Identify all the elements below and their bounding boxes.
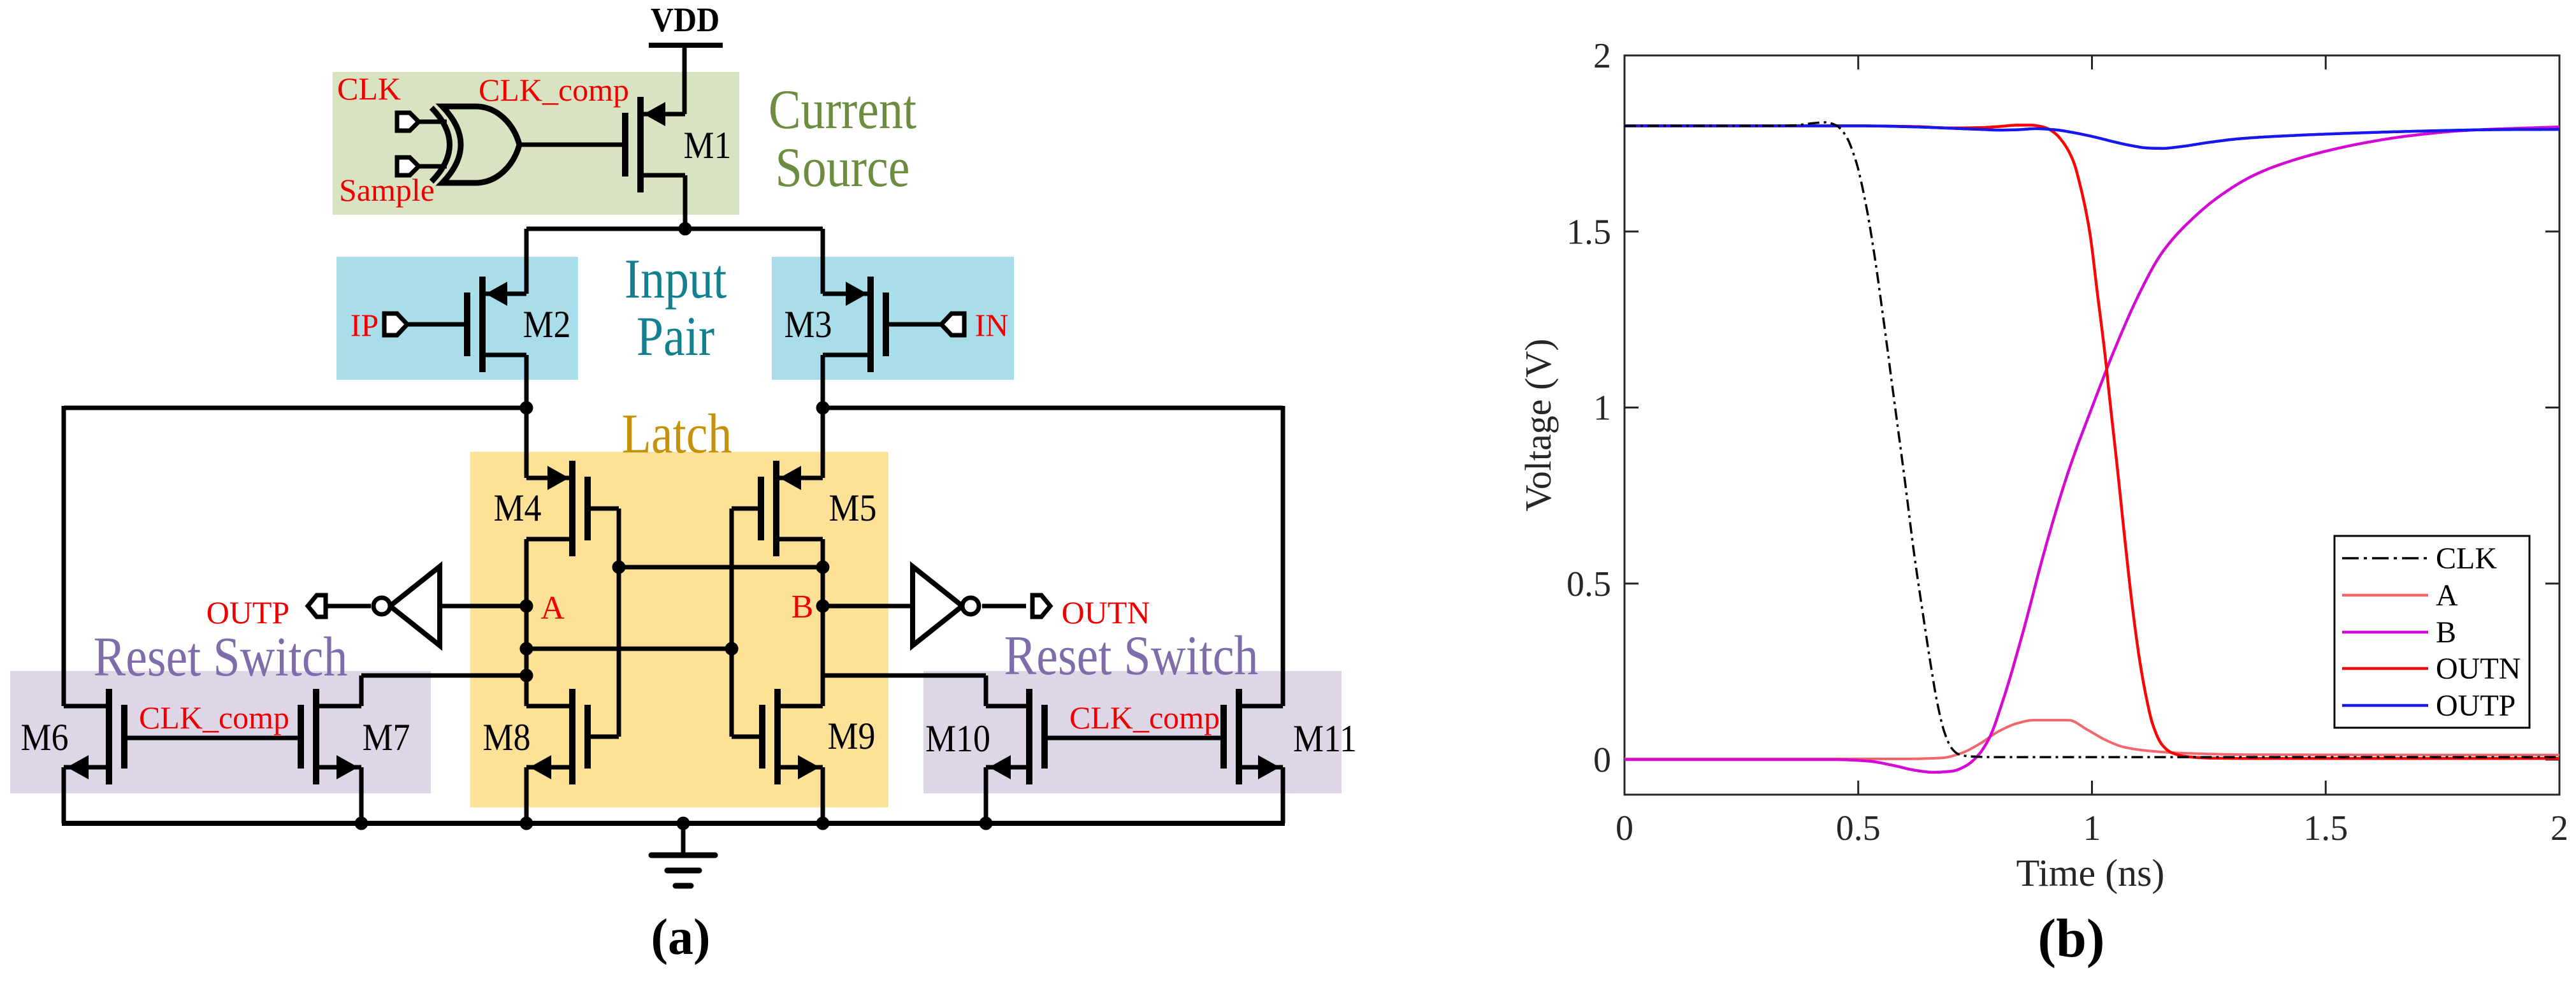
svg-text:M4: M4: [493, 487, 541, 529]
svg-text:0: 0: [1593, 740, 1611, 780]
svg-text:OUTN: OUTN: [2436, 652, 2521, 686]
svg-text:0.5: 0.5: [1567, 565, 1611, 604]
svg-text:M6: M6: [20, 716, 68, 758]
svg-text:M5: M5: [829, 487, 876, 529]
svg-text:Reset Switch: Reset Switch: [94, 626, 348, 688]
svg-text:VDD: VDD: [651, 1, 720, 39]
svg-text:B: B: [792, 589, 814, 625]
svg-text:Pair: Pair: [637, 305, 714, 367]
svg-text:Input: Input: [625, 248, 727, 310]
svg-text:M2: M2: [523, 303, 570, 345]
svg-text:1: 1: [1593, 389, 1611, 428]
svg-text:A: A: [540, 590, 565, 626]
svg-text:(a): (a): [651, 909, 710, 965]
svg-text:1.5: 1.5: [2303, 809, 2348, 848]
svg-text:CLK_comp: CLK_comp: [139, 700, 289, 735]
svg-text:1: 1: [2083, 809, 2101, 848]
svg-text:CLK: CLK: [337, 71, 401, 106]
svg-text:OUTP: OUTP: [206, 595, 290, 630]
svg-text:IN: IN: [975, 307, 1009, 343]
svg-text:1.5: 1.5: [1567, 212, 1611, 252]
svg-text:M9: M9: [827, 715, 875, 757]
svg-text:M3: M3: [784, 303, 832, 345]
svg-text:Latch: Latch: [622, 403, 732, 465]
svg-text:0.5: 0.5: [1836, 809, 1881, 848]
svg-text:Voltage (V): Voltage (V): [1517, 338, 1559, 511]
svg-text:OUTP: OUTP: [2436, 689, 2515, 723]
svg-text:CLK_comp: CLK_comp: [1069, 700, 1220, 735]
svg-text:M1: M1: [683, 124, 731, 166]
svg-text:0: 0: [1616, 809, 1633, 848]
svg-text:M11: M11: [1293, 718, 1357, 760]
svg-text:2: 2: [1593, 36, 1611, 76]
svg-text:M7: M7: [362, 716, 410, 758]
svg-text:Sample: Sample: [339, 172, 435, 208]
svg-text:2: 2: [2551, 809, 2568, 848]
svg-text:Time (ns): Time (ns): [2016, 852, 2165, 894]
svg-text:Source: Source: [775, 136, 909, 198]
svg-text:CLK_comp: CLK_comp: [479, 72, 629, 108]
svg-text:B: B: [2436, 616, 2456, 649]
svg-text:Current: Current: [769, 78, 916, 140]
svg-text:IP: IP: [351, 307, 379, 343]
svg-text:M8: M8: [482, 716, 530, 758]
svg-text:Reset Switch: Reset Switch: [1004, 625, 1259, 686]
svg-text:A: A: [2436, 579, 2458, 612]
svg-text:(b): (b): [2037, 907, 2104, 969]
svg-text:CLK: CLK: [2436, 542, 2497, 575]
svg-text:M10: M10: [925, 718, 990, 760]
